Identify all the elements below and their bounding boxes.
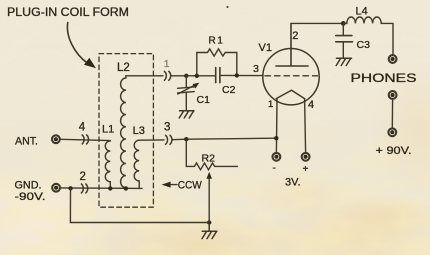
CCW arrow: [162, 182, 177, 188]
junction at GND rail: [68, 186, 72, 190]
svg-text:-90V.: -90V.: [15, 191, 46, 203]
wire chevron to C2: [172, 75, 216, 77]
pin 2 connector chevrons: [81, 184, 87, 193]
speck: [226, 6, 228, 8]
svg-text:3: 3: [164, 122, 170, 134]
svg-text:4: 4: [79, 121, 86, 133]
GND terminal: [52, 184, 60, 192]
junction R1 left: [195, 74, 199, 78]
svg-text:C3: C3: [357, 39, 371, 51]
inductor L1: [105, 141, 110, 189]
svg-text:C1: C1: [197, 94, 211, 106]
leader arrow to coil form: [67, 23, 96, 69]
wire pin3 to V1 pin1 node: [173, 138, 277, 140]
inductor L3: [134, 140, 139, 188]
svg-text:4: 4: [308, 99, 314, 111]
ground under rail: [202, 223, 217, 239]
ANT terminal: [52, 135, 60, 143]
V1 plate: [276, 23, 308, 66]
svg-text:PLUG-IN COIL FORM: PLUG-IN COIL FORM: [7, 5, 129, 19]
junction L2 bottom: [124, 186, 128, 190]
junction L1 bottom: [108, 186, 112, 190]
pin 3 connector chevrons: [166, 135, 172, 144]
inductor L4: [343, 17, 393, 55]
svg-text:+ 90V.: + 90V.: [376, 145, 412, 157]
svg-text:ANT.: ANT.: [15, 136, 38, 148]
B+ terminal: [388, 128, 396, 136]
junction pin1 node: [274, 136, 278, 140]
pin 4 connector chevrons: [82, 135, 88, 144]
wire L2 top to grid node: [126, 75, 163, 77]
3V plus terminal: [302, 153, 310, 161]
wire L3 to pin3 chevron: [139, 139, 164, 141]
V1 grid (dashed): [265, 75, 318, 77]
svg-text:CCW: CCW: [178, 179, 203, 191]
svg-text:3: 3: [253, 63, 259, 75]
wire C2 to V1 grid: [220, 74, 263, 76]
svg-text:L2: L2: [117, 62, 130, 74]
svg-text:R2: R2: [202, 152, 216, 164]
R2 wiper arrow: [206, 172, 212, 223]
svg-text:PHONES: PHONES: [351, 71, 417, 85]
wire ANT terminal to L1: [60, 139, 110, 140]
svg-text:1: 1: [164, 58, 170, 70]
V1 filament: [276, 90, 304, 98]
potentiometer R2: [186, 139, 237, 170]
svg-text:R1: R1: [209, 35, 225, 46]
junction C3/L4: [341, 21, 346, 26]
svg-text:2: 2: [292, 30, 298, 42]
phones bottom terminal: [389, 91, 397, 99]
svg-text:1: 1: [268, 99, 273, 110]
variable capacitor C1: [178, 76, 200, 111]
junction R2 top: [184, 137, 188, 141]
svg-text:V1: V1: [259, 42, 272, 54]
plug-in coil form dashed outline: [99, 54, 153, 208]
svg-text:3V.: 3V.: [285, 176, 301, 188]
wire V1 pin4 to 3V plus: [305, 99, 306, 153]
junction C1 top: [184, 74, 188, 78]
wire GND terminal to coils bottom: [61, 187, 143, 190]
wire V1 plate to C3/L4 node: [291, 22, 343, 24]
svg-text:L1: L1: [102, 124, 114, 136]
svg-text:C2: C2: [222, 84, 236, 96]
capacitor C2: [216, 68, 220, 83]
resistor R1: [197, 49, 237, 76]
svg-text:+: +: [303, 164, 309, 175]
wire V1 pin1 to 3V minus: [275, 99, 278, 153]
svg-text:2: 2: [80, 171, 86, 183]
svg-text:L3: L3: [133, 125, 145, 137]
capacitor C3: [336, 23, 353, 58]
svg-text:L4: L4: [356, 5, 368, 17]
ground under C3: [336, 58, 351, 65]
junction R1 right: [235, 73, 239, 77]
inductor L2: [121, 76, 126, 189]
3V minus terminal: [273, 153, 281, 161]
svg-text:-: -: [273, 163, 276, 174]
junction bottom rail: [207, 220, 211, 224]
pin 1 connector chevrons: [164, 71, 170, 80]
svg-text:GND.: GND.: [15, 180, 42, 192]
wire phones to B+: [391, 99, 393, 128]
tube V1 envelope: [263, 48, 319, 104]
ground under C1: [179, 111, 194, 118]
phones top terminal: [389, 55, 397, 63]
bottom ground rail: [70, 188, 209, 222]
